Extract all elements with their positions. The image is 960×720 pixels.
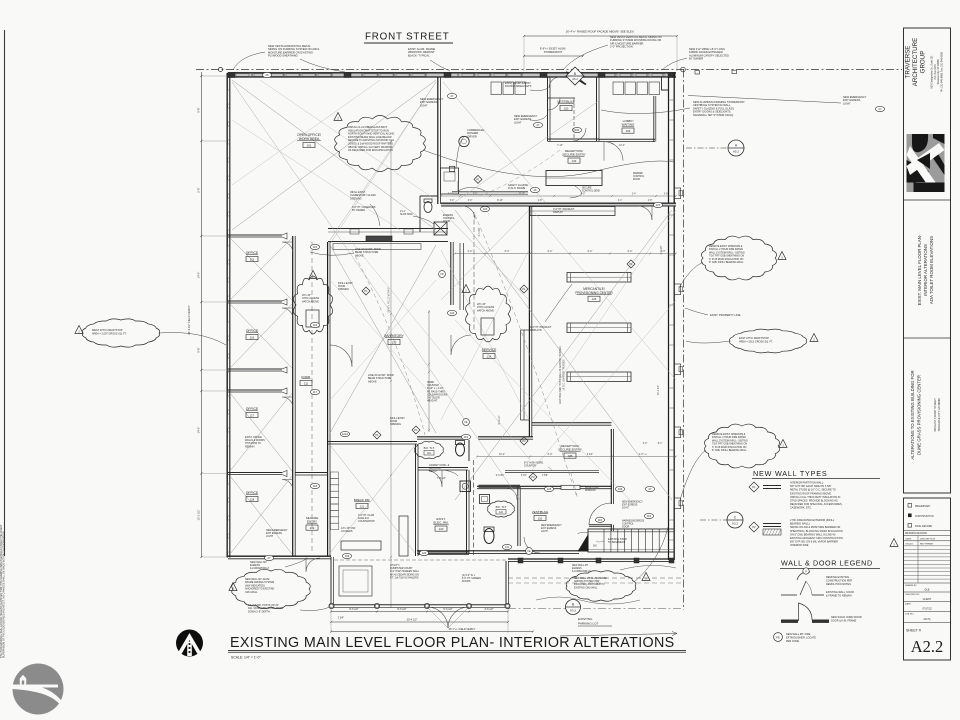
bottom dims dumpster [331,611,508,613]
left exterior wall [226,73,228,558]
diagonals break rm [330,445,415,553]
TA logo [907,134,945,192]
reception south wall long [441,203,676,206]
south property dashed line [508,608,684,610]
legend P2 symbol [749,522,759,532]
product display top [530,207,615,216]
cloud west attic draftstop [82,319,159,347]
vestibule dashed centerline [573,98,575,139]
dumpster court walls [330,557,332,607]
marker C/A3.2 circle [727,512,743,528]
corridor west wall [292,236,294,556]
waiting chairs west [491,82,502,95]
toilet south fixture [484,529,494,544]
bf tlt south room [479,484,521,486]
east storefront wall [668,77,670,560]
dim string mercantile [455,253,676,255]
cloud remove windows upper [701,236,776,280]
legend new door symbol [781,620,798,623]
office divider walls [228,234,282,236]
extra faint diagonals [260,80,436,200]
commercial washer circle [459,136,469,146]
parking leader arrow [560,632,677,637]
left page edge line [4,30,6,556]
north BF toilet room [420,196,438,232]
east wall window ticks [669,99,675,101]
vestibule door swings [548,98,560,110]
drawn by row [904,582,951,584]
vestibule entry door wedge [566,72,586,85]
casework under clerestory [333,244,421,250]
left wall window rects [228,90,231,104]
bottom wall center part [417,550,579,552]
product display row 3 [567,372,631,382]
top-right corner notch [662,77,669,90]
diagonals inventory [330,245,436,433]
washer closet [440,168,458,194]
lobby south wall [599,138,655,140]
wall oval tag [262,72,271,77]
cloud awning right [566,571,636,602]
north vestibule walls [547,77,549,141]
parking squiggles [536,597,640,604]
checkbox construction [908,514,912,518]
corridor dashed centerline [311,242,313,552]
diagonals mercantile [455,210,672,500]
diagonal service [441,210,529,300]
dashed egress curves [475,215,577,497]
roof beam diagonals open office [232,80,436,230]
inventory west wall [327,242,329,556]
site marker square 1 [695,71,700,74]
waiting chairs east [613,82,624,95]
window frame rects top wall [236,74,249,77]
cloud attic access east [466,286,511,342]
south wall left part [228,555,331,557]
stairs to basement [588,529,674,552]
marker triangle near title block [890,539,898,547]
service door arc [451,335,471,355]
east property dashed line [683,70,685,611]
checkbox final record [908,524,912,528]
bf tlt south label cloud [488,501,515,517]
marker B/A3.2 [566,600,581,615]
court posts [329,603,334,608]
secure entry door [306,558,320,573]
bf tlt north room [417,436,468,438]
lockers [331,472,339,478]
legend P1 symbol [749,482,759,492]
grid bubble left [218,67,222,71]
court inner dashes [334,559,506,561]
legend demo symbol [797,572,810,580]
stairs door wedge [578,534,589,552]
interior long vertical dim [390,140,392,608]
slop sink square [434,222,447,235]
lobby east partition [653,96,655,142]
inventory big door arc [330,345,352,367]
reception west door swing [458,181,485,191]
product display row 2 [567,323,631,333]
elec door swing [425,470,442,487]
dim string south reception [477,456,676,458]
court gate swings [427,607,448,628]
service west wall [450,242,452,305]
legend FE [774,633,783,642]
scattered door oval tags [310,244,319,249]
marker B/A5.2 diamond [566,67,584,85]
cloud insulation note [335,115,426,171]
product display row 1 [567,273,631,283]
legend existing wall symbol [781,594,797,596]
title block table [904,498,951,660]
title block outer top [904,28,951,493]
small wall box [450,166,455,171]
break room walls [328,441,417,443]
secure control desk leader [570,186,581,198]
grid bubble right [681,67,686,72]
safety glazing partition [452,191,528,193]
marker A/A5.2 circle [728,140,744,156]
vestibule interior wall [548,97,576,99]
dashed line service [473,212,475,330]
dashed centerline between rooms [473,460,475,556]
FE circles [463,419,470,426]
empty revision rows [904,545,951,547]
door gaps arcs on reception wall [462,206,475,219]
north BF toilet fixture [424,202,432,213]
roof beam long diagonals [232,82,520,500]
pass-thru window [561,485,580,489]
leader from awning cloud to wall [634,527,668,582]
reception dim string [441,195,676,197]
vertical dim service [428,310,430,432]
east wall piers [674,188,680,199]
south reception wall [477,485,561,487]
south bf tlt door arc [505,488,517,500]
title block divider under logo [904,199,951,201]
service north counter [459,243,461,310]
north arrow [176,630,203,657]
FD circle tag [439,271,446,278]
dumpster rect [339,566,372,596]
reception desk [546,171,602,186]
lighthouse watermark logo [13,664,64,715]
top exterior wall [228,73,676,77]
bf tlt north label cloud [415,441,444,458]
checkbox preliminary [908,504,912,508]
small fixture square [460,481,471,492]
vestibule se door stub + arc [589,524,612,526]
diagonals offices col [230,238,292,300]
cloud east attic draftstop [730,329,807,353]
cloud attic access west [293,276,332,334]
west dimension line [201,72,203,557]
service counters [520,330,522,420]
title block divider under sheet title [904,337,951,339]
elec room walls [418,467,468,469]
open office east wall [437,77,439,204]
office door openings and swings [282,242,293,253]
site dash-dot line [196,69,902,71]
cloud remove windows lower [704,424,779,468]
site marker square 2 [732,70,737,73]
reception south east wall [610,429,612,504]
south wall piers right [518,558,523,563]
secure entry room bottom-left [295,472,327,474]
south wall right part [508,558,674,560]
clerestory band [328,228,448,230]
sink south [480,495,490,504]
break counter [399,516,408,556]
mercantile west wall [528,206,530,437]
diagonals reception north [443,82,545,202]
lobby control door swing [604,142,623,161]
top wall piers [228,72,235,77]
south reception counter [505,470,599,472]
south canopy dashed line [508,577,684,579]
scattered P diamonds [520,285,528,293]
toilet north fixture [456,443,465,456]
mercantile south wall [532,422,612,424]
cloud awning left [232,569,311,608]
vestibule south door swings [524,537,540,553]
